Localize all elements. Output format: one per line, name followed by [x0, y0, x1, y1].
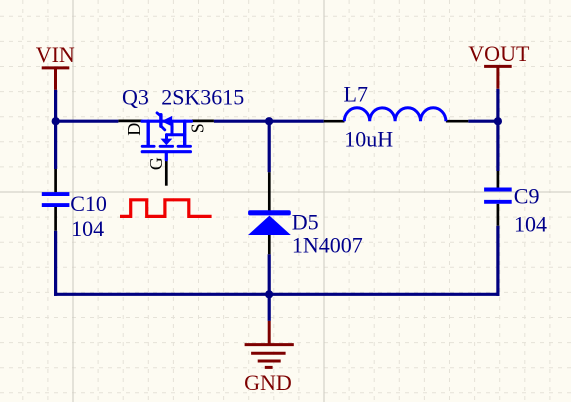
svg-text:C10: C10 — [70, 191, 107, 216]
svg-text:2SK3615: 2SK3615 — [161, 84, 244, 109]
svg-text:L7: L7 — [344, 82, 368, 107]
svg-text:104: 104 — [71, 216, 104, 241]
svg-text:104: 104 — [514, 212, 547, 237]
svg-text:D: D — [124, 123, 144, 136]
svg-text:D5: D5 — [292, 210, 319, 235]
svg-text:GND: GND — [244, 370, 292, 395]
svg-text:10uH: 10uH — [344, 127, 393, 152]
svg-text:S: S — [187, 123, 207, 133]
svg-text:C9: C9 — [514, 184, 540, 209]
svg-text:VOUT: VOUT — [468, 41, 530, 66]
svg-text:1N4007: 1N4007 — [292, 233, 363, 258]
svg-text:VIN: VIN — [36, 42, 75, 67]
svg-text:Q3: Q3 — [122, 84, 149, 109]
svg-text:G: G — [146, 157, 166, 170]
